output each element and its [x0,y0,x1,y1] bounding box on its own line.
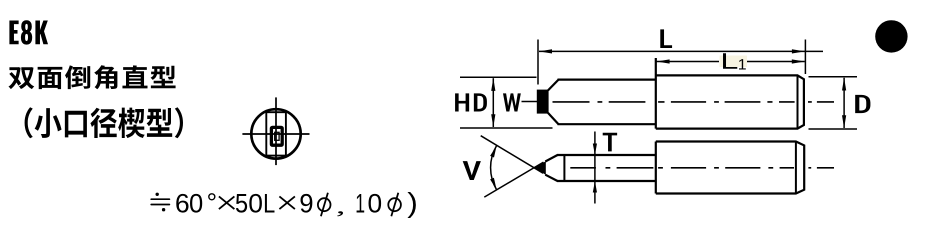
shank outline (side view) [656,142,804,194]
label T [603,133,617,152]
L left extension line [537,40,539,85]
centerline (side view) [570,167,834,169]
title text E8K [9,20,48,44]
icon outer circle [251,109,300,158]
spec approx symbol ≒ [151,199,169,204]
V arc arrowhead upper [490,146,497,158]
tip black rectangle (top view) [537,90,549,114]
shaft top line (side view) [557,154,656,156]
shaft bottom line (side view) [557,180,656,182]
V angle upper line [481,136,543,174]
tip wedge triangle (side view) [534,161,546,175]
HD bottom extension line [460,127,553,129]
subtitle 双面倒角直型 [8,65,175,89]
label W [503,93,521,111]
HD top extension line [460,76,537,78]
icon inner tiny rect [275,132,279,140]
tip chamfer top (top view) [548,80,559,91]
D bottom extension line [809,128,858,130]
tip chamfer bottom (top view) [548,113,559,124]
D top extension line [809,76,858,78]
label L1 [723,53,737,68]
chamfer edge line (side view) [563,155,565,181]
shank outline (top view) [656,58,804,129]
V angle arc [491,146,497,190]
spec text 60°×50L×9φ，10φ) [176,194,188,213]
centerline (top view) [553,101,835,103]
shank end inner line (side view) [795,142,797,194]
icon vertical centerline [275,97,277,165]
icon horizontal centerline [242,133,309,135]
label HD [455,93,487,111]
L/L1 right extension line [804,40,806,75]
spec φ symbols [318,198,331,211]
spec × symbols [219,196,235,209]
shaft bottom line (top view) [558,123,656,125]
subtitle （小口径楔型） [25,107,183,138]
shank end inner line (top view) [797,75,799,128]
shaft top line (top view) [558,78,656,80]
tip chamfer top (side view) [545,155,557,162]
icon bold center rect [271,127,282,145]
L dimension line [539,49,823,53]
corner bullet [875,20,907,52]
V arc arrowhead lower [490,178,497,190]
HD dimension arrow [491,78,495,127]
label V [463,161,481,180]
label L1 highlight [720,56,748,68]
D dimension arrow [842,78,846,129]
W leader line [522,101,538,103]
label L [660,29,672,48]
tip chamfer bottom (side view) [545,175,557,181]
label D [855,95,870,113]
L1 dimension line [657,59,805,63]
icon tall rectangle [266,112,286,155]
T dimension line [593,132,597,204]
V angle lower line [484,162,543,197]
